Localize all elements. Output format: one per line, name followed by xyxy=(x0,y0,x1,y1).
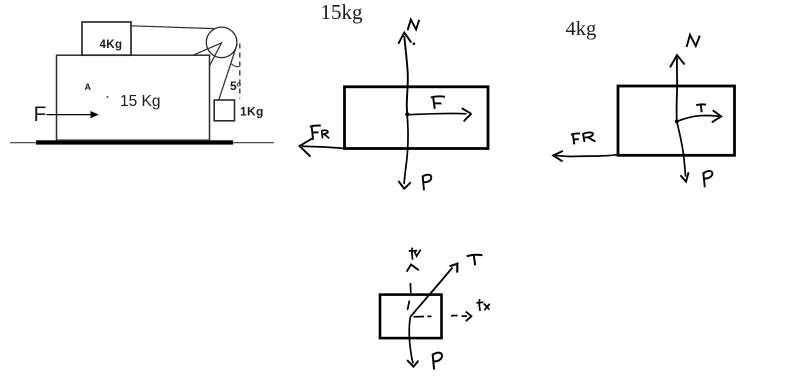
arrow N 15kg xyxy=(398,33,415,114)
ground line xyxy=(10,142,274,144)
label F xyxy=(34,103,47,126)
svg-text:4Kg: 4Kg xyxy=(100,39,123,51)
label P 4kg xyxy=(703,171,712,187)
svg-text:15kg: 15kg xyxy=(321,0,364,24)
dashed arrow Ty 1kg xyxy=(407,265,419,311)
center dot 4kg xyxy=(675,120,679,124)
arrow F 15kg xyxy=(409,108,471,121)
rope from 15Kg block to pulley center xyxy=(194,43,222,66)
label 4Kg xyxy=(100,39,123,51)
title 15kg xyxy=(321,0,364,24)
dash-dot arrow Tx 1kg xyxy=(414,312,472,322)
svg-text:A: A xyxy=(85,82,92,92)
arrow P 1kg xyxy=(407,317,418,367)
block 15Kg outline xyxy=(57,55,210,140)
center dot 15kg xyxy=(405,112,409,116)
svg-text:1Kg: 1Kg xyxy=(240,105,264,119)
label P 1kg xyxy=(433,353,442,370)
arrow FR 15kg xyxy=(300,138,344,156)
svg-text:F: F xyxy=(34,103,47,126)
label N 15kg xyxy=(408,20,420,31)
pulley xyxy=(206,27,237,58)
point dot xyxy=(107,96,109,98)
label Tx 1kg xyxy=(476,299,489,311)
label T 1kg xyxy=(467,255,483,266)
rope from 4Kg block to pulley xyxy=(131,26,214,29)
label N 4kg xyxy=(687,35,700,47)
arrow P 4kg xyxy=(677,122,689,182)
svg-text:4kg: 4kg xyxy=(566,18,597,40)
arrow P 15kg xyxy=(398,116,410,189)
FBD rect 15kg xyxy=(345,87,489,149)
rope from pulley to 1Kg weight xyxy=(219,44,237,100)
label FR 15kg xyxy=(310,126,329,140)
ground thick bar xyxy=(36,140,233,144)
label 1Kg xyxy=(240,105,264,119)
angle arc xyxy=(231,64,239,67)
dashed vertical reference line xyxy=(239,44,241,99)
block 4Kg outline xyxy=(82,22,131,55)
arrow FR 4kg xyxy=(553,151,618,162)
label T 4kg xyxy=(696,104,706,112)
arrow N 4kg xyxy=(670,55,685,120)
arrow T 4kg xyxy=(677,110,721,122)
label FR 4kg xyxy=(571,132,596,144)
title 4kg xyxy=(566,18,597,40)
label 5 deg xyxy=(230,79,241,93)
label F 15kg xyxy=(431,96,445,108)
FBD rect 1kg xyxy=(380,295,442,339)
force arrow F xyxy=(47,111,99,118)
FBD rect 4kg xyxy=(618,86,735,155)
block 1Kg outline xyxy=(214,100,234,121)
label P 15kg xyxy=(423,175,432,191)
label Ty 1kg xyxy=(409,248,421,260)
arrow T 1kg xyxy=(410,264,457,317)
label A xyxy=(85,82,92,92)
label 15 Kg xyxy=(120,93,161,110)
svg-text:15 Kg: 15 Kg xyxy=(120,93,161,110)
